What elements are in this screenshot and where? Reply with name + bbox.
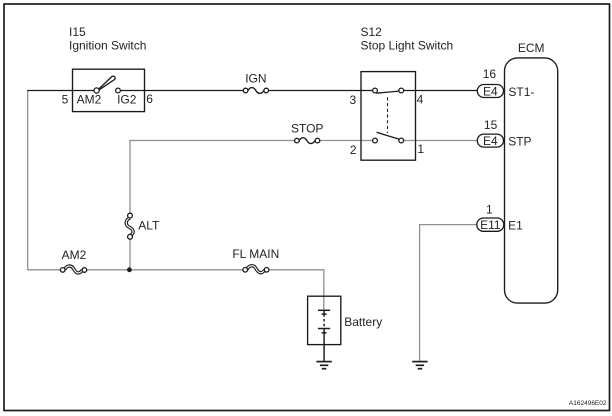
fuse STOP white gap	[298, 135, 317, 146]
svg-text:3: 3	[350, 93, 357, 107]
wire: battery drop vertical	[323, 269, 325, 310]
svg-text:5: 5	[62, 93, 69, 107]
fusible link AM2 right terminal	[82, 268, 87, 273]
wire: ALT vertical from STOP wire down to bottom bus	[129, 140, 131, 270]
fusible link ALT top terminal	[128, 213, 133, 218]
connector E4 pin 15 oval	[477, 134, 503, 147]
svg-text:16: 16	[483, 67, 497, 81]
svg-text:1: 1	[417, 142, 424, 156]
svg-text:S12: S12	[361, 25, 383, 39]
fusible link AM2 left terminal	[60, 268, 65, 273]
battery cell symbol	[318, 310, 330, 333]
wire: battery negative to ground (black)	[323, 333, 325, 362]
ignition switch I15 box	[73, 69, 145, 111]
fuse STOP left terminal	[295, 138, 300, 143]
svg-text:2: 2	[350, 143, 357, 157]
fusible link ALT white gap	[124, 218, 136, 235]
svg-text:4: 4	[417, 93, 424, 107]
svg-text:IG2: IG2	[117, 93, 137, 107]
wire: STP from stop light switch pin 1 to ECM connector E4	[403, 140, 478, 142]
junction node: ALT wire joins bottom bus	[127, 267, 132, 272]
fuse IGN white gap	[246, 85, 266, 96]
ignition switch contact IG2 (pin 6)	[116, 88, 121, 93]
svg-text:1: 1	[486, 203, 493, 217]
svg-text:IGN: IGN	[245, 72, 266, 86]
svg-text:FL MAIN: FL MAIN	[232, 247, 279, 261]
svg-text:Stop Light Switch: Stop Light Switch	[361, 39, 454, 53]
fusible link AM2 braid	[65, 266, 83, 273]
wire: AM2 feed left vertical (node from ignition switch pin 5 down to bottom bus)	[27, 91, 29, 270]
S12 upper right contact (pin 4)	[399, 88, 404, 93]
svg-text:ST1-: ST1-	[508, 85, 534, 99]
wire: E1 ground wire from ECM connector E11 left then down to ground	[420, 225, 478, 362]
svg-text:E4: E4	[483, 84, 498, 98]
connector E11 pin 1 oval	[477, 218, 504, 231]
ground symbol below battery	[316, 362, 331, 369]
S12 upper left contact (pin 3)	[373, 88, 378, 93]
fuse IGN left terminal	[243, 88, 248, 93]
svg-text:6: 6	[146, 92, 153, 106]
S12 upper contact lever (closed)	[376, 91, 399, 93]
S12 lower contact lever (open)	[377, 132, 399, 139]
fusible link ALT bottom terminal	[128, 234, 133, 239]
svg-text:ALT: ALT	[138, 219, 160, 233]
fusible link AM2 white gap	[64, 264, 83, 276]
S12 lower left contact (pin 2)	[373, 138, 378, 143]
fuse STOP right terminal	[315, 138, 320, 143]
S12 link dashed line	[387, 97, 389, 133]
wire: STOP horizontal from ALT node to stop light switch pin 2	[129, 140, 372, 142]
S12 lower right contact (pin 1)	[399, 138, 404, 143]
fusible link FL MAIN left terminal	[243, 268, 248, 273]
ground symbol for E1 wire	[412, 362, 427, 369]
ECM body	[505, 58, 558, 303]
wire: ignition switch IG2 through IGN fuse to stop light switch pin 3 (black)	[120, 90, 373, 92]
ignition switch lever blade	[99, 76, 115, 90]
connector E4 pin 16 oval	[477, 85, 503, 98]
svg-text:Battery: Battery	[344, 315, 382, 329]
battery box	[308, 296, 341, 344]
fusible link FL MAIN braid	[247, 266, 265, 273]
fuse IGN wave	[248, 88, 264, 94]
svg-text:AM2: AM2	[62, 248, 87, 262]
svg-text:E4: E4	[483, 134, 498, 148]
fusible link ALT braid (vertical)	[126, 218, 133, 236]
svg-text:E11: E11	[480, 218, 501, 232]
svg-text:ECM: ECM	[518, 41, 545, 55]
svg-text:STP: STP	[508, 135, 531, 149]
fusible link FL MAIN white gap	[247, 264, 264, 276]
svg-text:E1: E1	[508, 219, 523, 233]
svg-text:15: 15	[484, 118, 498, 132]
svg-text:STOP: STOP	[291, 121, 323, 135]
svg-text:AM2: AM2	[77, 93, 102, 107]
fuse STOP wave	[299, 138, 315, 144]
wire: bottom bus horizontal through AM2 and FL MAIN to battery	[27, 269, 324, 271]
wire: stop light switch pin 4 to ECM connector E4 ST1- (black)	[403, 90, 478, 92]
wire: from left vertical to ignition switch pin 5 (black)	[27, 90, 94, 92]
svg-text:A162496E02: A162496E02	[569, 400, 607, 407]
svg-text:Ignition Switch: Ignition Switch	[69, 39, 146, 53]
fusible link FL MAIN right terminal	[264, 268, 269, 273]
fuse IGN right terminal	[264, 88, 269, 93]
stop light switch S12 box	[361, 72, 416, 161]
ignition switch contact AM2 (pin 5)	[94, 88, 99, 93]
svg-text:I15: I15	[69, 25, 86, 39]
